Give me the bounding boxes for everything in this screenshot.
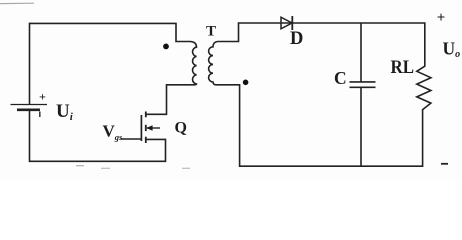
svg-text:+: +: [39, 90, 46, 104]
svg-text:RL: RL: [391, 58, 415, 78]
svg-text:C: C: [334, 68, 347, 88]
svg-text:T: T: [206, 23, 216, 39]
svg-text:Q: Q: [175, 120, 187, 137]
svg-text:+: +: [437, 10, 446, 26]
svg-text:D: D: [290, 29, 303, 49]
